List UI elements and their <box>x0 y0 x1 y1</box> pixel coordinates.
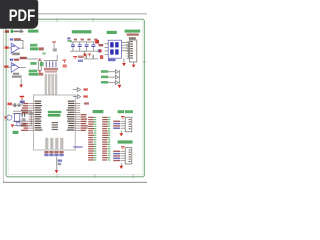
MCU U1 right pin names (inside) <box>66 101 74 131</box>
buffer/diode Q1 <box>73 88 88 92</box>
MCU top pin names (vertical text columns) <box>45 74 58 95</box>
pull-up resistor array RN1 <box>44 55 58 67</box>
pull-up resistor array above MCU: net label (green) <box>40 62 44 66</box>
section title: aux connector (green) <box>118 140 133 143</box>
wire below power flag <box>21 100 24 106</box>
power flag above MCU (mid) <box>62 60 66 68</box>
opto-coupler U3 (vertical) <box>38 58 41 72</box>
ESD common wire <box>118 70 121 83</box>
R pullup value label (blue) <box>20 101 25 104</box>
ESD diode row 2 <box>101 75 119 79</box>
frame tick left <box>5 119 9 122</box>
ground below J1 (left) <box>122 58 126 66</box>
svg-text:PDF: PDF <box>9 6 36 25</box>
buffer/diode Q2 <box>73 95 88 99</box>
schematic border frame outer <box>6 19 144 177</box>
section title: opto/isolation ch2 (green 2-line) <box>30 62 36 65</box>
aux net labels <box>113 151 125 162</box>
filter caps bus wires <box>70 42 99 52</box>
PDF badge <box>0 0 38 29</box>
UART power flag <box>121 116 125 119</box>
ground ESD <box>118 85 122 88</box>
red dot left of Y1 <box>4 116 6 118</box>
U2B lower passives R,C <box>12 73 22 78</box>
ground below UART <box>119 131 123 137</box>
frame tick bottom B <box>94 175 97 179</box>
op-amp U2A <box>11 43 19 53</box>
op-amp U2B <box>11 62 19 72</box>
MCU U1 left pin wires + net labels <box>21 103 34 131</box>
power connector J1 label <box>129 37 136 39</box>
section title U2B (green 2-line) <box>29 70 43 76</box>
+3V3 power flag <box>20 96 25 100</box>
section title: crystal (green) <box>13 131 19 134</box>
net label SCL wire <box>20 57 39 60</box>
wires K1 to connector <box>121 42 128 58</box>
wire MCU bottom to ground <box>56 157 62 171</box>
section title: power indicator (green) <box>28 30 39 33</box>
net flag near U2A output <box>42 52 45 54</box>
MCU inner config pins <box>52 122 58 130</box>
aux power flag <box>121 146 125 149</box>
K1 left pins <box>105 43 109 55</box>
power connector J1 <box>127 40 137 62</box>
aux connector J3 <box>125 148 132 164</box>
ground mid filter <box>83 51 87 56</box>
frame tick bottom C <box>132 175 135 179</box>
blue wire right of MCU bottom <box>73 146 82 147</box>
MCU U1 part name (green 2-line) <box>48 111 62 117</box>
section title: UART (green) <box>118 110 133 113</box>
IO pin list column B <box>102 117 110 161</box>
load capacitors C5 C6 <box>22 112 26 121</box>
section title: supply filter caps (green) <box>72 30 92 33</box>
wire to U2B <box>8 66 11 69</box>
ground below aux <box>119 164 123 169</box>
wire U2A output <box>14 40 24 49</box>
MCU U1 box <box>34 95 76 150</box>
bridge/relay K1 body <box>108 40 121 58</box>
UART net labels <box>113 121 125 129</box>
MCU U1 left pin names (inside) <box>35 101 43 131</box>
wire U2B output <box>19 66 26 69</box>
ESD diode row 3 <box>101 81 119 85</box>
section title: IO header (green) <box>93 110 104 113</box>
power flag right of RN1 <box>73 56 84 62</box>
red net dot left of K1 <box>99 50 102 53</box>
net label near buffer output <box>84 102 89 104</box>
wire to U2A input <box>9 47 12 50</box>
ESD diode row 1 <box>101 70 119 74</box>
IO pin list column A <box>88 117 96 161</box>
section title: reverse protection (green) <box>107 31 117 34</box>
U2A input net label (red) <box>5 46 9 48</box>
crystal Y1 circle <box>7 115 12 120</box>
crystal Y2 small box <box>17 122 26 125</box>
RN1 value labels (maroon row) <box>44 68 58 73</box>
crystal box <box>15 113 20 121</box>
ground symbol below U2B <box>19 78 23 87</box>
MCU bottom pin names (vertical text block) <box>45 138 63 149</box>
page bottom edge <box>3 182 147 183</box>
U2B input net label (red) <box>4 65 8 67</box>
page left edge <box>2 13 5 183</box>
page top edge <box>3 13 147 14</box>
op-amp U2B labels <box>10 59 19 61</box>
ground below J1 (right) <box>132 62 136 68</box>
K1 value label (blue) <box>108 59 116 61</box>
filter capacitors C1-C4 <box>71 39 97 51</box>
wire cap row <box>12 103 22 107</box>
net label (red) left of caps <box>7 103 12 106</box>
crystal wiring loop <box>13 111 34 126</box>
section title: power connector (green + sub) <box>125 30 141 36</box>
LED power-indicator circuit D-LED <box>5 30 24 33</box>
ground flag below MCU <box>55 170 59 174</box>
schematic border frame inner <box>8 21 142 174</box>
MCU bottom pin stubs + labels <box>44 151 63 156</box>
section title: opto/isolation ch1 (green 2-line) <box>30 44 44 51</box>
U2A lower passives <box>12 53 20 56</box>
decoupling caps near filter (power flag + caps) <box>84 49 103 59</box>
standalone power flag between sections <box>52 41 57 51</box>
net label (green) left <box>67 37 71 41</box>
frame tick top A <box>56 18 59 22</box>
UART connector J2 <box>125 117 132 132</box>
ground below Y1 <box>11 124 14 127</box>
frame tick bottom A <box>56 175 59 179</box>
frame tick top B <box>92 18 95 22</box>
MCU U1 right pin wires + net labels <box>75 103 88 131</box>
frame tick right <box>143 61 147 64</box>
polarized cap / diode right (red) <box>95 40 103 47</box>
op-amp U2A labels <box>10 38 21 40</box>
